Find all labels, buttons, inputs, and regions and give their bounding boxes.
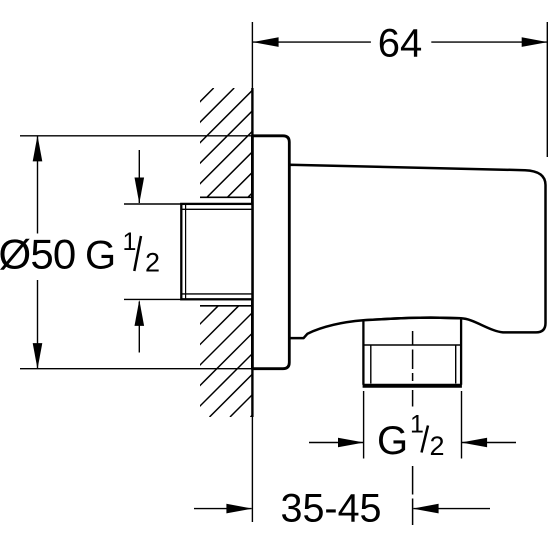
dimension diameter 50: extension lines and vertical dimension line segments: [20, 136, 252, 369]
dashed centerline of outlet nipple: [412, 331, 414, 525]
dimension 64 left arrowhead: [253, 37, 279, 47]
svg-text:1: 1: [123, 228, 137, 256]
dimension diameter 50 bottom arrowhead: [33, 343, 43, 369]
svg-text:G: G: [85, 234, 116, 278]
wall hatching (45-degree section lines, upper and lower wall regions): [104, 88, 361, 417]
dimension 35-45 left arrowhead (pointing right at wall line): [226, 504, 252, 514]
bottom G1/2 dimension right arrowhead (pointing left): [461, 438, 487, 448]
dimension 35-45: dimension line segments: [194, 508, 490, 510]
bottom thread label G 1/2: [377, 411, 445, 464]
wall hole top edge: [200, 196, 252, 198]
left G1/2 thread dimension: extension lines and arrow shafts: [124, 150, 181, 353]
bottom G1/2 dimension left arrowhead (pointing right): [338, 438, 364, 448]
dimension 64: extension line right and dimension line segments: [253, 22, 547, 157]
dimension 35-45 right arrowhead (pointing left at centerline): [413, 504, 439, 514]
wall surface line (also serves as extension line for dimensions 64 and 35-45): [251, 22, 253, 522]
svg-text:2: 2: [430, 431, 445, 461]
left G1/2 dimension lower arrowhead (pointing up): [135, 300, 145, 326]
escutcheon cover plate (diameter 50) against wall: [252, 136, 289, 369]
svg-text:G: G: [377, 419, 408, 463]
svg-text:2: 2: [145, 248, 160, 278]
body of shower wall union (side view): [289, 165, 545, 338]
svg-text:1: 1: [410, 411, 424, 439]
male G1/2 inlet thread connector passing through wall: [181, 204, 252, 299]
left G1/2 dimension upper arrowhead (pointing down): [135, 178, 145, 204]
svg-text:64: 64: [378, 22, 423, 66]
dimension 64 right arrowhead: [522, 37, 548, 47]
bottom outlet nipple with G1/2 thread: [363, 318, 462, 386]
svg-text:Ø50: Ø50: [0, 230, 76, 277]
left thread label G 1/2: [85, 228, 160, 278]
svg-text:35-45: 35-45: [281, 487, 382, 531]
wall hole bottom edge: [200, 305, 252, 307]
bottom G1/2 thread dimension: extension lines and arrow shafts: [309, 391, 516, 459]
dimension diameter 50 top arrowhead: [33, 135, 43, 161]
